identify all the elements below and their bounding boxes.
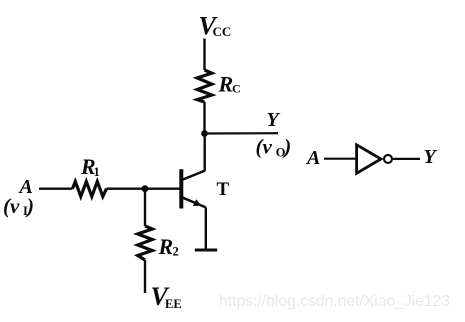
node base junction [142, 185, 149, 192]
svg-text:R: R [158, 234, 174, 259]
label R2 [158, 234, 179, 259]
label (vO) [256, 135, 292, 160]
resistor R1 [73, 182, 107, 197]
svg-text:https://blog.csdn.net/Xiao_Jie: https://blog.csdn.net/Xiao_Jie123 [219, 293, 450, 310]
svg-text:R: R [218, 72, 234, 97]
wire R1 to base node [107, 187, 182, 189]
svg-text:): ) [25, 194, 34, 218]
svg-text:A: A [305, 147, 320, 169]
svg-text:EE: EE [165, 297, 182, 311]
svg-text:): ) [282, 135, 291, 159]
transistor T collector lead [182, 171, 205, 180]
svg-text:Y: Y [424, 146, 438, 168]
wire emitter to ground [205, 207, 207, 250]
svg-text:T: T [217, 179, 230, 200]
wire gate input [324, 158, 356, 160]
wire node to R2 [144, 189, 146, 226]
node output junction [201, 130, 208, 137]
wire R2 to VEE [144, 260, 146, 293]
resistor R2 [138, 226, 153, 260]
svg-text:CC: CC [213, 24, 232, 39]
label R1 [80, 154, 100, 179]
wire input A to R1 [39, 187, 73, 189]
svg-text:(v: (v [256, 135, 273, 159]
svg-text:1: 1 [94, 165, 100, 179]
label RC [218, 72, 241, 97]
power label VEE [151, 282, 182, 311]
label (vI) [3, 194, 34, 218]
wire gate output [392, 158, 420, 160]
svg-text:Y: Y [267, 109, 281, 131]
inverter gate G1 triangle [357, 145, 381, 174]
svg-text:(v: (v [3, 194, 20, 218]
resistor RC [197, 70, 212, 102]
wire RC to output node [203, 102, 205, 134]
transistor T emitter lead [182, 197, 206, 207]
svg-text:C: C [232, 82, 241, 96]
svg-text:2: 2 [173, 245, 179, 259]
transistor T base bar [179, 169, 183, 208]
transistor T emitter arrow [193, 199, 202, 206]
wire node to Y output [205, 132, 279, 135]
wire collector vertical [203, 134, 205, 172]
power label VCC [199, 12, 232, 41]
ground [195, 249, 217, 252]
wire VCC to RC [203, 39, 205, 71]
inverter gate G1 bubble [384, 155, 392, 163]
